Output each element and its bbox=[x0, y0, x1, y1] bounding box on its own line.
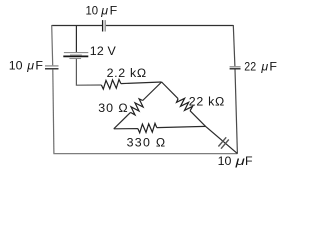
svg-text:F: F bbox=[245, 154, 253, 168]
battery 12V: plate stack bbox=[63, 53, 88, 59]
resistor 22 kOhm (zigzag on right diagonal) bbox=[177, 98, 193, 111]
svg-text:μ: μ bbox=[234, 154, 245, 168]
svg-text:330 Ω: 330 Ω bbox=[127, 135, 166, 149]
svg-text:10: 10 bbox=[86, 4, 99, 18]
wire: 330 resistor to right junction node bbox=[157, 126, 206, 127]
svg-text:F: F bbox=[269, 60, 277, 74]
wire: battery branch from top wire down bbox=[75, 26, 77, 53]
resistor 330 Ohm (zigzag) bbox=[138, 123, 157, 132]
svg-text:μ: μ bbox=[100, 4, 108, 18]
capacitor 10uF (diagonal): tick plates across wire bbox=[218, 137, 228, 148]
svg-text:22: 22 bbox=[244, 60, 256, 74]
svg-text:10: 10 bbox=[218, 154, 232, 168]
capacitor 22uF (right wire): plates bbox=[230, 67, 241, 69]
wire: left vertex to 330 resistor bbox=[114, 128, 138, 130]
svg-text:F: F bbox=[110, 4, 118, 18]
svg-text:30 Ω: 30 Ω bbox=[98, 101, 127, 115]
svg-text:μ: μ bbox=[26, 58, 34, 72]
svg-text:22 kΩ: 22 kΩ bbox=[189, 95, 225, 109]
wire: apex to 22k resistor (upper right diagonal) bbox=[162, 82, 179, 99]
svg-text:F: F bbox=[35, 58, 43, 72]
capacitor 10uF (top wire): plates bbox=[103, 20, 106, 31]
resistor 30 Ohm (zigzag on left diagonal) bbox=[131, 99, 144, 115]
node: apex junction / wire upper part of left diagonal bbox=[143, 82, 162, 101]
resistor 2.2 kOhm (zigzag) bbox=[101, 80, 121, 90]
wire: top side of outer loop bbox=[52, 25, 102, 27]
wire: bottom side of outer loop bbox=[53, 153, 237, 155]
wire: 22k resistor down through junction to bottom-right corner bbox=[190, 111, 237, 154]
svg-text:12 V: 12 V bbox=[90, 44, 117, 58]
svg-text:10: 10 bbox=[9, 58, 23, 72]
wire: right side of outer loop bbox=[233, 25, 235, 66]
wire: battery bottom down and right to 2.2k resistor bbox=[76, 59, 101, 85]
wire: lower part of left diagonal to left vertex bbox=[114, 112, 131, 128]
wire: 2.2k resistor to apex node bbox=[121, 82, 162, 84]
svg-text:μ: μ bbox=[260, 60, 268, 74]
wire: left side of outer loop bbox=[52, 25, 53, 65]
capacitor 10uF (left wire): plates bbox=[45, 66, 59, 69]
svg-text:2.2 kΩ: 2.2 kΩ bbox=[107, 66, 147, 80]
